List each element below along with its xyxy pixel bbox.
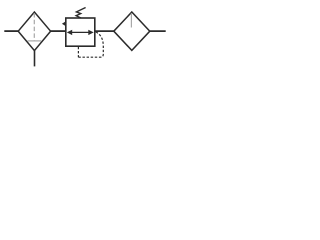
wire: regulator to lubricator [95,30,114,32]
wire: filter to regulator [51,30,66,32]
filter F1: water level bar [27,40,41,42]
lubricator L1: oil drip line [130,13,132,28]
filter F1: condensate dashed line [33,13,35,41]
regulator R1: internal flow double arrow [67,30,94,35]
regulator R1: relief exhaust triangle [62,21,66,26]
wire: outlet line A [150,30,166,32]
regulator R1: adjustment spring [76,8,86,19]
pressure regulator R1: body box [66,18,95,46]
filter/water separator F1: diamond body [18,12,50,51]
lubricator L1: diamond body [114,12,150,50]
wire: inlet line P [4,30,18,32]
regulator R1: pilot feedback dashed line [78,32,103,57]
wire: drain line below filter [34,51,36,67]
